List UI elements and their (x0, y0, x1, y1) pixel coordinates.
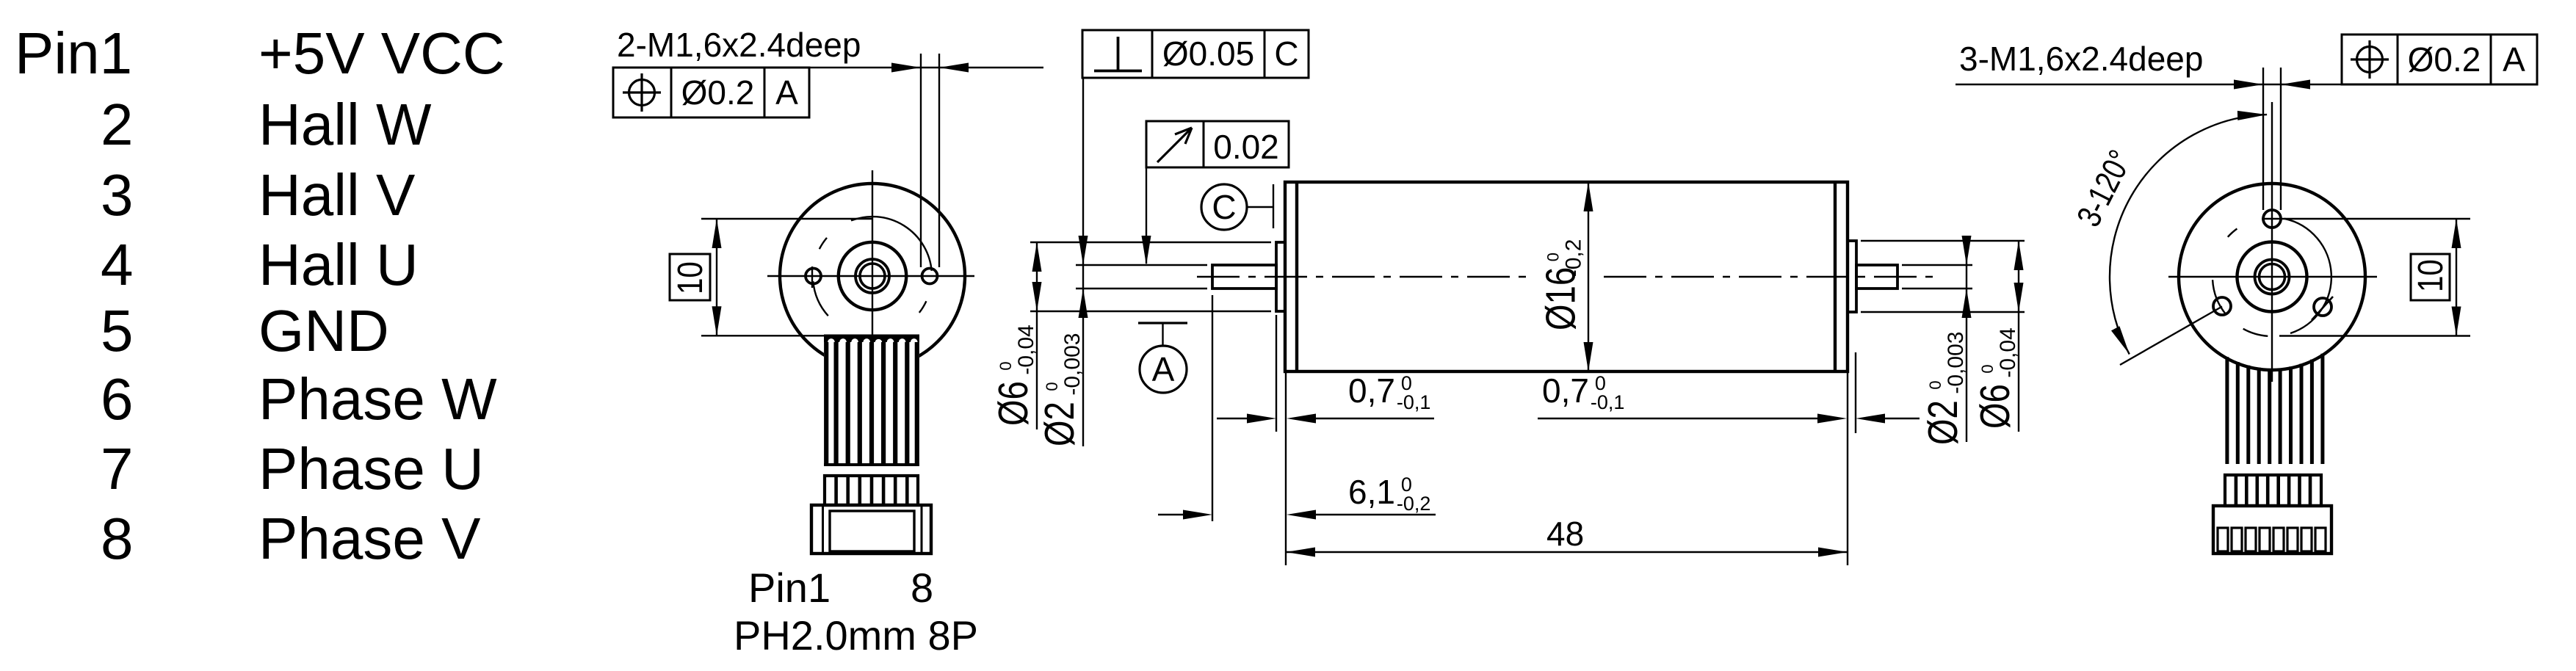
side view centerline (1197, 276, 1939, 278)
rear bolt circle solid arc right (2284, 219, 2331, 333)
side view rear end cap line (1834, 182, 1837, 371)
svg-text:0: 0 (1978, 364, 1997, 373)
rear view top M1.6 hole (2263, 210, 2281, 228)
rear position tolerance frame Ø0.2|A (2342, 35, 2537, 84)
svg-text:0.02: 0.02 (1213, 128, 1279, 166)
svg-text:-0,2: -0,2 (1562, 239, 1586, 278)
svg-text:C: C (1212, 188, 1236, 226)
side Ø6 extension lines rear (1861, 241, 2025, 312)
svg-text:Phase U: Phase U (258, 436, 484, 501)
rear bolt circle dash upper-left (2228, 229, 2237, 237)
svg-text:3-M1,6x2.4deep: 3-M1,6x2.4deep (1959, 40, 2203, 78)
svg-text:Pin1: Pin1 (748, 565, 831, 611)
front view tapped hole projection lines (921, 54, 939, 267)
front view motor outer circle (780, 184, 965, 369)
side Ø6 extension lines front (1030, 242, 1271, 311)
label 0,7 rear (1542, 371, 1624, 413)
svg-text:10: 10 (671, 261, 710, 294)
svg-text:0: 0 (1926, 380, 1944, 389)
rear thread callout 3-M1,6x2.4deep (1959, 40, 2203, 78)
side view front bearing boss (1276, 242, 1285, 311)
svg-text:GND: GND (258, 298, 389, 363)
svg-text:+5V VCC: +5V VCC (258, 21, 505, 86)
rear hole width dimension line (1955, 80, 2342, 90)
label 0,7 front (1348, 371, 1430, 413)
svg-text:Ø6: Ø6 (989, 381, 1036, 426)
side Ø6 dimension line rear (2014, 241, 2024, 432)
svg-text:0: 0 (1544, 253, 1563, 261)
lower-left hole leader (2120, 307, 2222, 366)
label Ø2 tolerance front (1035, 333, 1085, 446)
perpendicularity tolerance frame Ø0.05|C (1082, 30, 1309, 78)
front position tolerance frame Ø0.2|A (613, 68, 809, 117)
svg-text:A: A (775, 73, 798, 112)
rear view hub circle (2237, 242, 2307, 312)
svg-text:-0,1: -0,1 (1397, 391, 1431, 413)
side view front shaft stub Ø2 (1212, 265, 1276, 289)
side view rear shaft Ø2 (1856, 265, 1897, 289)
front connector label Pin1 (748, 565, 831, 611)
front connector label PH2.0mm 8P (734, 612, 978, 659)
svg-text:2-M1,6x2.4deep: 2-M1,6x2.4deep (617, 26, 861, 64)
side Ø6 dimension line front (1032, 242, 1042, 429)
svg-text:0,7: 0,7 (1542, 371, 1589, 410)
svg-text:10: 10 (2412, 259, 2450, 292)
runout leader (1142, 167, 1151, 265)
dimension 6,1 (1158, 295, 1436, 521)
svg-text:PH2.0mm 8P: PH2.0mm 8P (734, 612, 978, 659)
side view rear bearing boss (1848, 241, 1856, 312)
rear bolt circle arc bottom (2243, 329, 2268, 336)
pin assignment table (15, 21, 505, 571)
svg-text:Ø6: Ø6 (1971, 384, 2018, 429)
front view left M1.6 hole (806, 266, 821, 288)
front view shaft rings (855, 259, 889, 293)
svg-text:Phase W: Phase W (258, 366, 497, 432)
svg-text:C: C (1274, 35, 1298, 73)
label Ø16 tolerance (1537, 239, 1586, 330)
svg-text:0: 0 (996, 361, 1015, 370)
svg-text:-0,04: -0,04 (1014, 324, 1038, 374)
rear view lower-right M1.6 hole (2312, 297, 2333, 320)
svg-text:-0,1: -0,1 (1591, 391, 1625, 413)
svg-text:Hall W: Hall W (258, 92, 432, 157)
front view bolt circle arc lower-left (813, 281, 828, 316)
angle dimension arc 3-120 (2110, 111, 2267, 355)
svg-text:48: 48 (1546, 515, 1584, 553)
side Ø2 extension lines rear (1902, 265, 1972, 289)
svg-text:0,7: 0,7 (1348, 371, 1395, 410)
rear ribbon strain relief (2225, 475, 2321, 506)
svg-text:6: 6 (101, 366, 134, 432)
datum A symbol (1138, 323, 1187, 393)
side view front end cap line (1295, 182, 1298, 371)
svg-text:2: 2 (101, 92, 134, 157)
svg-text:Pin1: Pin1 (15, 21, 132, 86)
svg-text:5: 5 (101, 298, 134, 363)
rear connector teeth (2218, 528, 2326, 551)
svg-text:3: 3 (101, 162, 134, 228)
svg-text:0: 0 (1043, 382, 1061, 391)
front view bolt circle dash upper-left (820, 238, 827, 249)
dimension 0,7 front (1217, 315, 1434, 565)
rear bolt circle diameter 10 dimension (2262, 219, 2470, 336)
svg-text:Ø2: Ø2 (1919, 400, 1966, 445)
front view hub circle (839, 242, 906, 310)
rear view shaft rings (2255, 260, 2290, 294)
rear view vertical centerline (2271, 102, 2273, 382)
front ribbon cable wires (824, 335, 919, 466)
svg-text:-0,2: -0,2 (1397, 493, 1431, 515)
label Ø6 tolerance rear (1971, 327, 2020, 429)
svg-text:7: 7 (101, 436, 134, 501)
front view vertical centerline (872, 170, 873, 371)
rear ribbon cable wires (2227, 354, 2323, 464)
side Ø2 dimension line rear (1962, 236, 1972, 442)
front hole width dimension line (809, 63, 1043, 73)
svg-text:-0,003: -0,003 (1060, 333, 1085, 396)
front ribbon strain relief (825, 476, 918, 505)
svg-text:8: 8 (101, 506, 134, 571)
front thread callout 2-M1,6x2.4deep (617, 26, 861, 64)
svg-text:Hall V: Hall V (258, 162, 416, 228)
front bolt circle diameter 10 dimension (670, 219, 872, 335)
svg-text:-0,003: -0,003 (1944, 332, 1968, 394)
front ribbon arched slot tops (828, 338, 918, 342)
label 48 (1546, 515, 1584, 553)
side view motor body (1285, 182, 1848, 371)
rear connector body (2213, 506, 2331, 554)
rear view lower-left M1.6 hole (2213, 297, 2231, 315)
front view bolt circle solid arc (851, 217, 932, 271)
datum C symbol (1201, 184, 1273, 230)
front view bolt circle dash lower-right (919, 301, 927, 313)
svg-text:Phase V: Phase V (258, 506, 481, 571)
svg-text:Ø0.05: Ø0.05 (1162, 35, 1254, 73)
dimension 48 (1286, 371, 1848, 565)
label Ø6 tolerance front (989, 324, 1038, 426)
svg-text:Ø2: Ø2 (1035, 402, 1082, 446)
svg-text:Ø0.2: Ø0.2 (2408, 40, 2481, 79)
front connector body (811, 505, 931, 554)
side Ø2 dimension line front (1079, 78, 1088, 446)
rear view tapped hole projection lines (2263, 68, 2281, 210)
svg-text:6,1: 6,1 (1348, 473, 1395, 511)
front connector label 8 (911, 565, 933, 611)
svg-text:8: 8 (911, 565, 933, 611)
svg-text:A: A (1152, 350, 1175, 388)
svg-text:4: 4 (101, 232, 134, 297)
label Ø2 tolerance rear (1919, 332, 1968, 445)
front view right M1.6 hole (922, 269, 938, 284)
front connector inner housing (823, 505, 922, 554)
rear bolt circle arc lower-left (2213, 280, 2226, 315)
label 3-120 degrees (2069, 144, 2140, 233)
side Ø2 extension lines front (1076, 265, 1207, 289)
svg-text:Hall U: Hall U (258, 232, 419, 297)
label 6,1 (1348, 473, 1430, 515)
rear view motor outer circle (2179, 184, 2365, 370)
runout tolerance frame 0.02 (1146, 121, 1289, 167)
svg-text:-0,04: -0,04 (1996, 327, 2020, 377)
front view horizontal centerline (767, 275, 974, 277)
svg-text:A: A (2503, 40, 2525, 79)
dimension 0,7 rear (1538, 352, 1920, 433)
Ø16 dimension line (1584, 182, 1593, 371)
svg-text:Ø0.2: Ø0.2 (681, 73, 755, 112)
rear view horizontal centerline (2168, 276, 2377, 278)
